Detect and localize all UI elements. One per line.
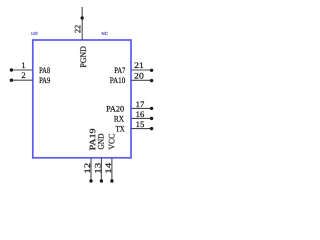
pin 1 wire: [11, 69, 32, 71]
node pin 17: [150, 107, 153, 110]
node pin 16: [150, 117, 153, 120]
node pin 1: [10, 68, 13, 71]
svg-text:21: 21: [134, 61, 144, 70]
svg-text:14: 14: [104, 162, 113, 174]
svg-text:15: 15: [136, 120, 145, 129]
node pin 2: [10, 79, 13, 82]
pin 17 wire: [131, 107, 152, 109]
node pin 13: [100, 179, 103, 182]
svg-text:20: 20: [134, 71, 144, 80]
node pin 14: [110, 179, 113, 182]
node pin 22: [81, 16, 84, 19]
svg-text:U30: U30: [31, 31, 38, 36]
svg-text:PA7: PA7: [114, 66, 125, 75]
node pin 15: [150, 127, 153, 130]
svg-text:2: 2: [21, 71, 25, 80]
svg-text:PA9: PA9: [39, 76, 50, 85]
svg-text:TX: TX: [116, 125, 125, 134]
svg-text:RX: RX: [114, 115, 124, 124]
node pin 20: [150, 79, 153, 82]
svg-text:VCC: VCC: [107, 133, 116, 149]
pin 12 wire: [90, 158, 92, 181]
node pin 21: [150, 69, 153, 72]
svg-text:22: 22: [73, 25, 82, 33]
pin 20 wire: [131, 79, 152, 81]
svg-text:17: 17: [136, 100, 145, 109]
svg-text:1: 1: [21, 61, 25, 70]
node pin 12: [89, 179, 92, 182]
svg-text:PA20: PA20: [106, 104, 124, 113]
pin 21 wire: [131, 69, 152, 71]
pin 22 PGND wire: [81, 7, 83, 40]
pin 16 wire: [131, 117, 152, 119]
pin 14 wire: [111, 158, 113, 181]
svg-text:NC: NC: [102, 31, 109, 36]
svg-text:13: 13: [94, 163, 103, 174]
ic U3O body: [33, 40, 131, 158]
svg-text:12: 12: [83, 163, 92, 174]
pin 2 wire: [11, 79, 32, 81]
pin 15 wire: [131, 128, 152, 130]
svg-text:PA8: PA8: [39, 66, 50, 75]
svg-text:16: 16: [136, 110, 145, 119]
svg-text:PGND: PGND: [79, 46, 88, 67]
svg-text:GND: GND: [97, 134, 106, 150]
svg-text:PA10: PA10: [110, 76, 126, 85]
pin 13 wire: [100, 158, 102, 181]
